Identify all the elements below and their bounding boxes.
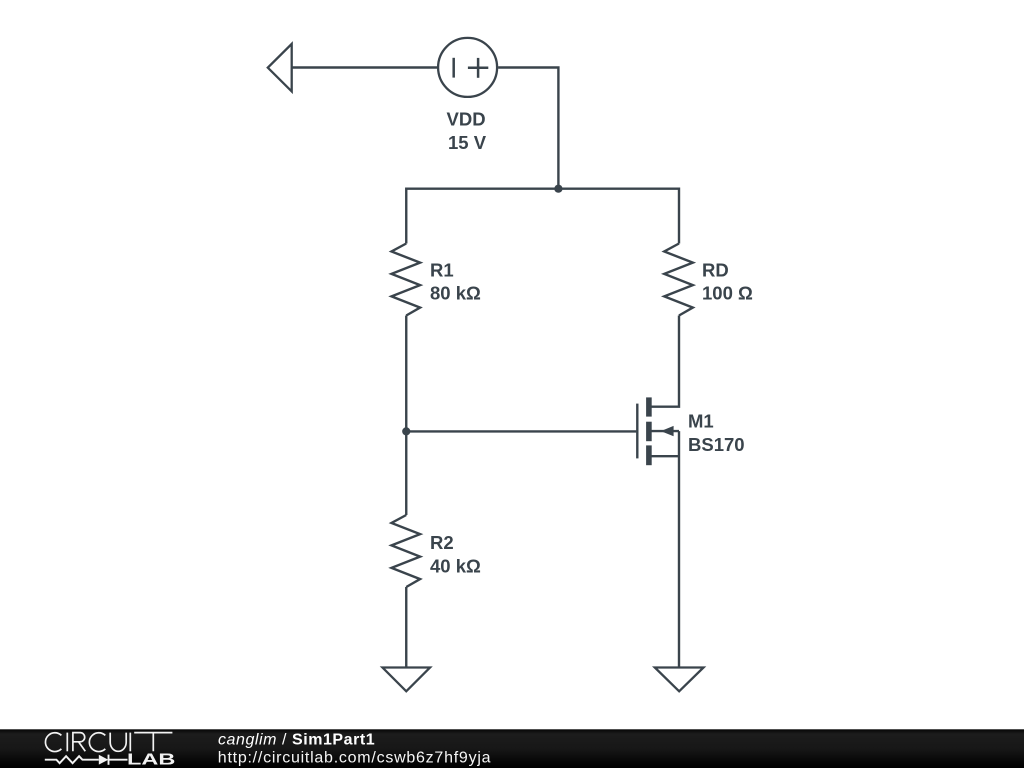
wire: bus to RD top — [678, 188, 680, 244]
voltage source V1 (VDD) — [438, 38, 497, 97]
svg-text:R1: R1 — [430, 260, 454, 281]
footer bar — [0, 729, 1024, 768]
svg-text:40 kΩ: 40 kΩ — [430, 555, 481, 576]
wire: V1 positive to top bus — [498, 68, 558, 189]
wire: gate node to M1 gate — [406, 430, 636, 432]
ground (left) — [383, 668, 431, 692]
svg-text:http://circuitlab.com/cswb6z7h: http://circuitlab.com/cswb6z7hf9yja — [218, 750, 491, 767]
resistor R1 — [392, 244, 421, 316]
ground (right) — [655, 668, 704, 692]
svg-text:15 V: 15 V — [448, 132, 487, 153]
wire: R1 bottom to gate node — [405, 316, 407, 432]
svg-text:100 Ω: 100 Ω — [702, 283, 753, 304]
svg-text:LAB: LAB — [127, 751, 175, 768]
svg-text:80 kΩ: 80 kΩ — [430, 283, 481, 304]
ground (rotated, at V1 negative terminal) — [268, 44, 292, 92]
resistor R2 — [392, 515, 421, 587]
svg-text:canglim / Sim1Part1: canglim / Sim1Part1 — [218, 732, 375, 749]
wire: R2 bottom to ground — [405, 587, 407, 667]
CircuitLab logo: resistor-diode strip and LAB — [45, 755, 128, 765]
wire: M1 source to ground — [678, 431, 680, 667]
transistor M1 (NMOS BS170) — [637, 397, 679, 465]
wire: RD bottom to M1 drain — [652, 316, 680, 407]
wire: rotated ground to V1 negative — [292, 66, 437, 68]
svg-text:M1: M1 — [688, 411, 714, 432]
svg-text:VDD: VDD — [447, 109, 486, 130]
svg-text:RD: RD — [702, 260, 729, 281]
resistor RD — [664, 244, 693, 316]
svg-text:BS170: BS170 — [688, 434, 745, 455]
svg-text:R2: R2 — [430, 532, 454, 553]
node: junction on top bus — [554, 185, 562, 193]
CircuitLab logo: CIRCUIT wordmark — [45, 733, 172, 752]
wire: top bus — [406, 187, 679, 189]
wire: gate node to R2 top — [405, 431, 407, 515]
wire: bus to R1 top — [405, 188, 407, 244]
node: gate junction — [402, 427, 410, 435]
